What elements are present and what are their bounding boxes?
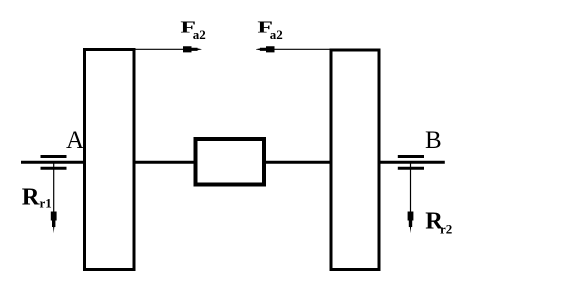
reaction arrow Rr2 (line) [410, 162, 412, 213]
force arrow Fa2 right (line) [272, 48, 330, 50]
reaction arrow Rr2 (head) [408, 212, 414, 234]
bearing B lower bar [398, 167, 424, 170]
bearing B upper bar [398, 155, 424, 158]
force arrow Fa2 left (head) [183, 46, 202, 52]
svg-text:a2: a2 [270, 27, 283, 42]
svg-text:A: A [66, 127, 84, 154]
gear wheel 1 (left rectangle) [85, 50, 135, 270]
bearing A upper bar [41, 155, 67, 158]
force arrow Fa2 right (head) [256, 46, 275, 52]
coupling (center rectangle) [196, 139, 265, 185]
svg-text:R: R [22, 184, 40, 211]
gear wheel 2 (right rectangle) [331, 50, 379, 270]
svg-text:r1: r1 [40, 195, 52, 210]
svg-text:a2: a2 [193, 27, 206, 42]
wire shaft axis [21, 161, 445, 164]
force arrow Fa2 left (line) [135, 48, 185, 50]
svg-text:r2: r2 [440, 221, 452, 236]
reaction arrow Rr1 (head) [51, 212, 57, 234]
bearing A lower bar [41, 167, 67, 170]
reaction arrow Rr1 (line) [53, 162, 55, 213]
svg-text:B: B [425, 127, 442, 154]
